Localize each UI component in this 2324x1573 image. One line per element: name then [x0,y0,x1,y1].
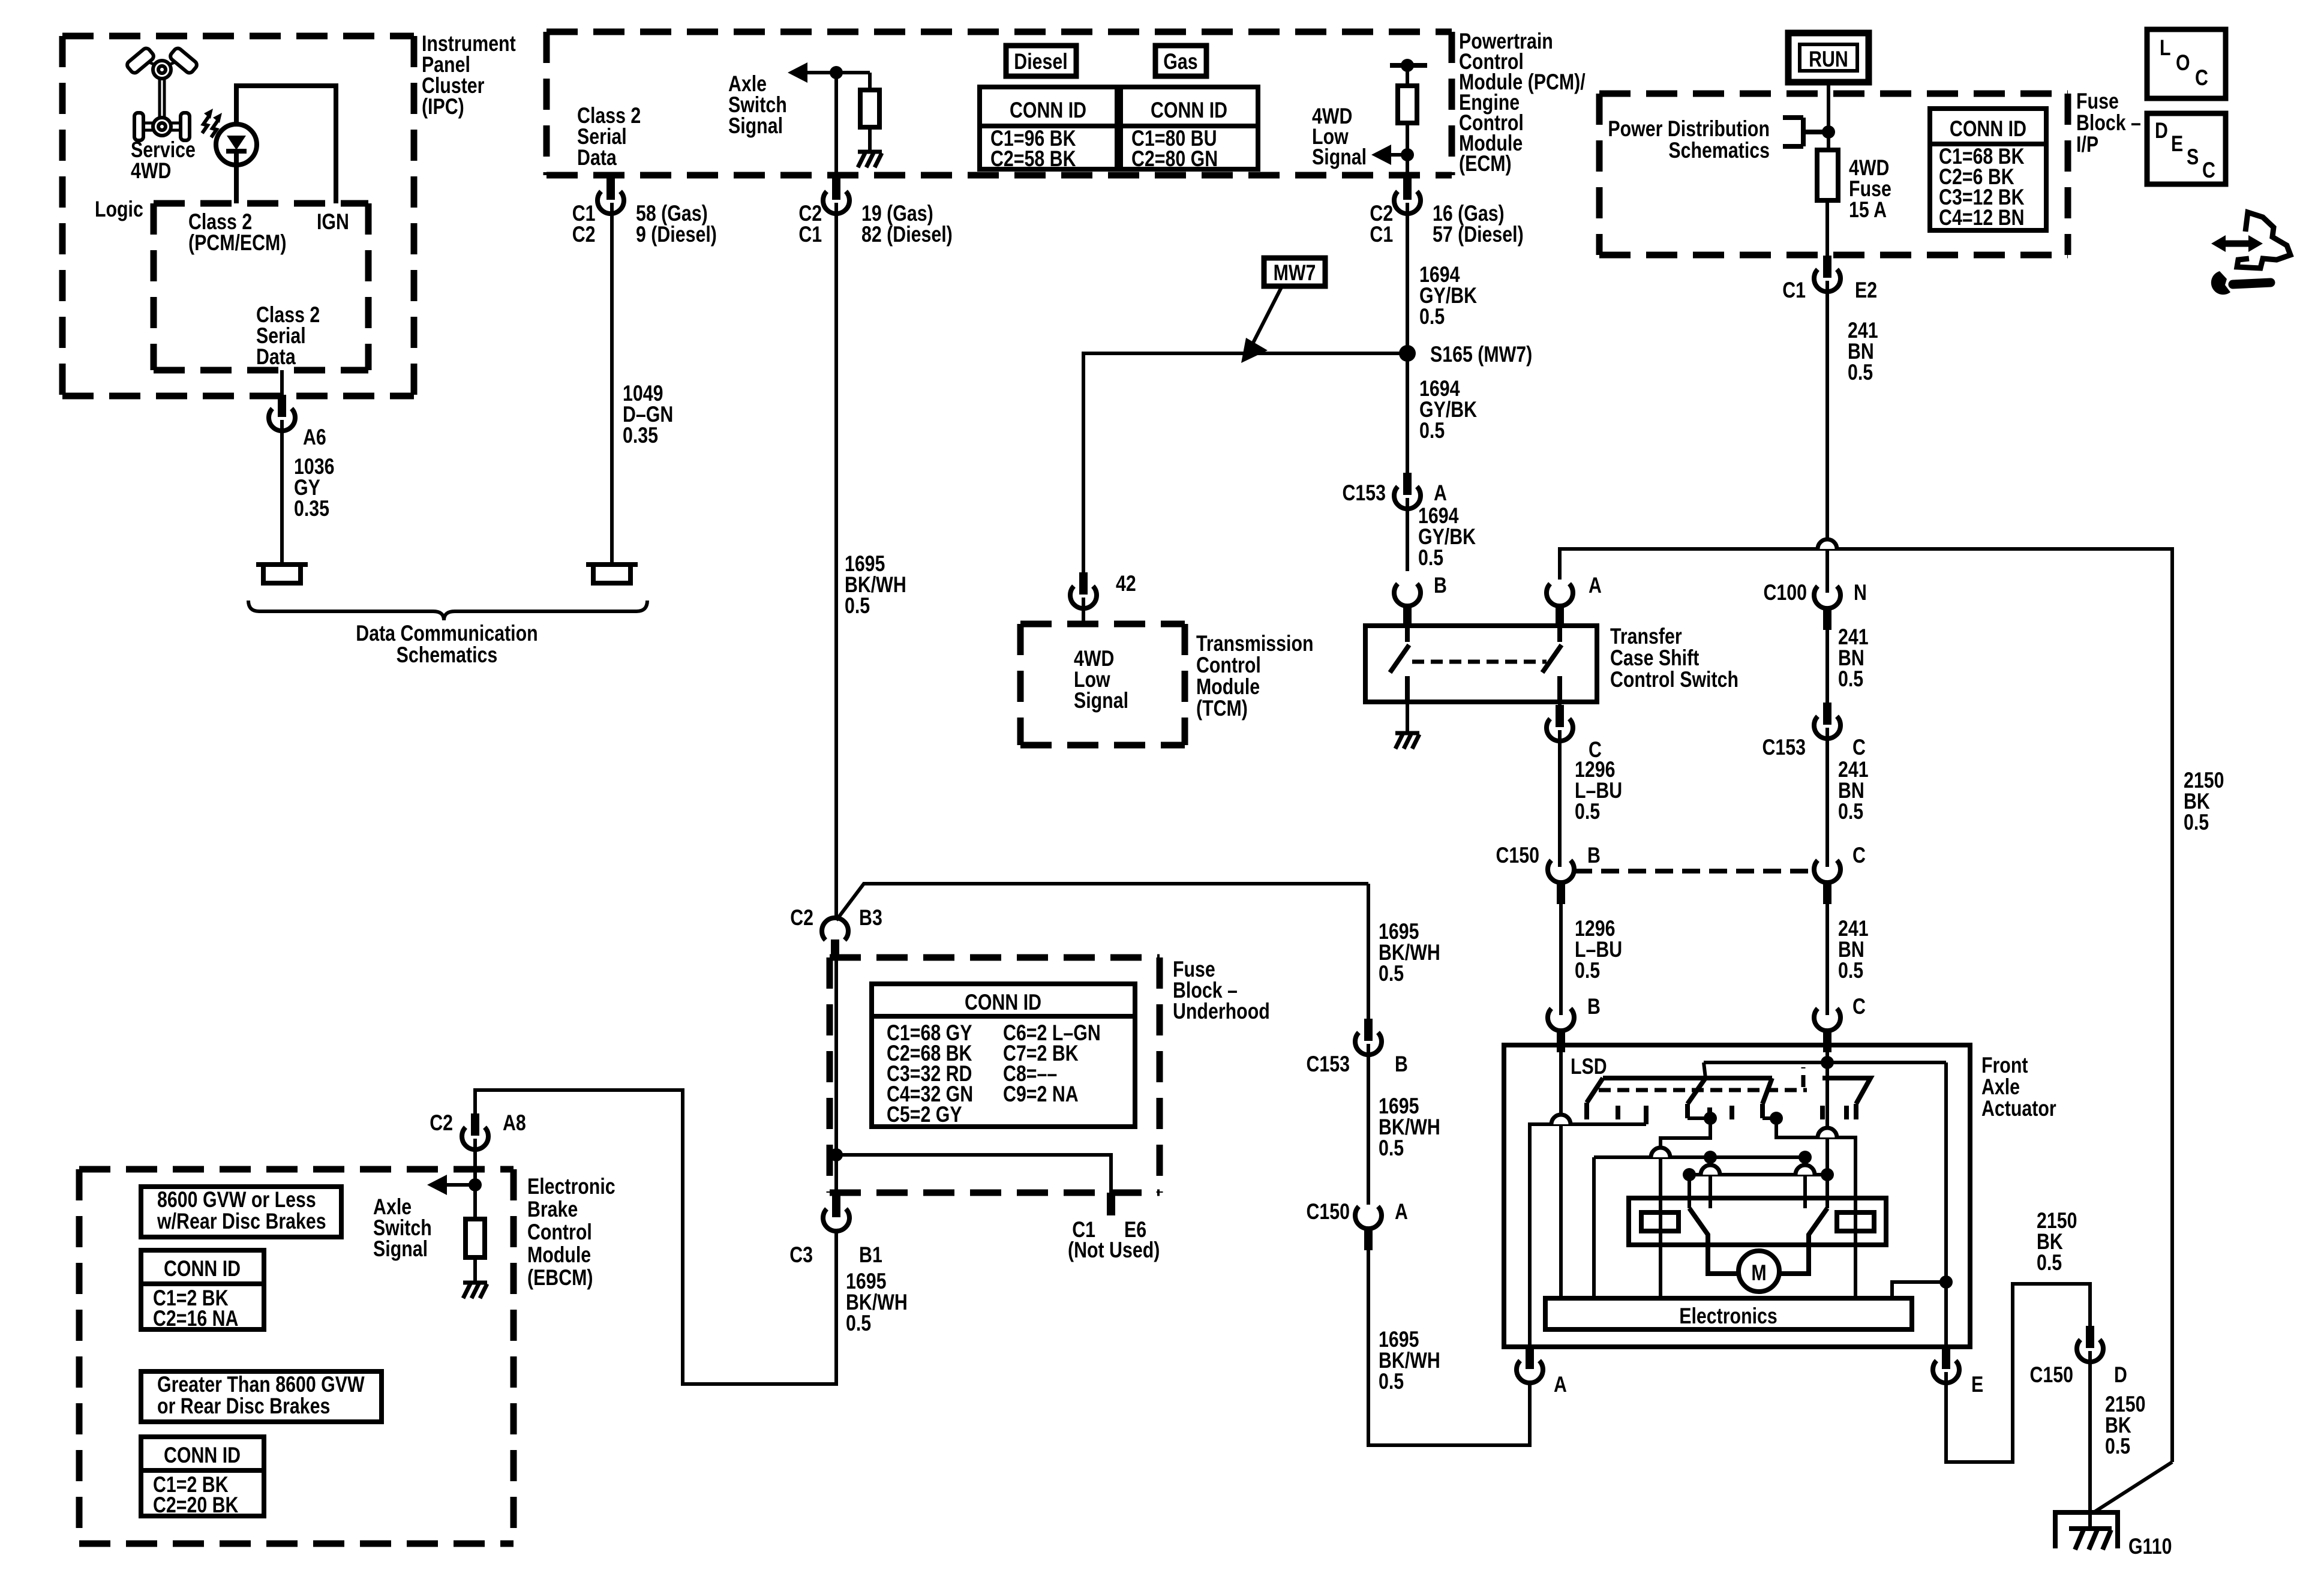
svg-text:0.5: 0.5 [2037,1250,2062,1275]
svg-text:0.5: 0.5 [1575,799,1600,824]
wire 241 BN C150 to actuator [1825,904,1829,1015]
svg-text:CONN ID: CONN ID [1151,98,1227,123]
logic box Class 2 (PCM/ECM) [154,203,368,370]
wire 1296 L-BU upper [1558,730,1562,867]
wire to E6 not used [836,1155,1111,1193]
node 4WD low signal top bar [1390,63,1427,68]
switch box Transfer Case Shift Control Switch [1365,626,1597,702]
hop bus2 over left contact [1701,1165,1720,1175]
icon service arrow wrench [2211,212,2290,295]
connector A6 [269,395,295,431]
svg-text:(Not Used): (Not Used) [1068,1238,1160,1263]
box DESC [2147,113,2226,184]
connector C150 C [1814,860,1840,904]
svg-text:CONN ID: CONN ID [164,1256,241,1281]
arrow 4WD low signal [1401,148,1414,161]
wire fuse out [1825,200,1829,277]
svg-text:Actuator: Actuator [1981,1096,2056,1121]
svg-text:0.5: 0.5 [1838,799,1863,824]
connector C2 B3 [822,918,848,960]
table CONN ID (Gas) [1121,87,1258,169]
svg-text:C: C [1852,994,1866,1019]
svg-text:82 (Diesel): 82 (Diesel) [861,222,953,247]
svg-text:C5=2 GY: C5=2 GY [887,1102,962,1127]
svg-text:G110: G110 [2128,1534,2172,1559]
svg-text:0.5: 0.5 [846,1311,871,1336]
module box Electronic Brake Control Module (EBCM) [79,1169,514,1544]
svg-text:0.5: 0.5 [845,593,870,619]
svg-text:Diesel: Diesel [1014,49,1067,74]
wire LSD right output to coil 2 [1762,1118,1855,1298]
LSD blade 1 [1688,1078,1706,1104]
svg-text:0.5: 0.5 [1379,961,1404,986]
wire 2150 BK to G110 [2088,1351,2092,1529]
resistor PCM 4WD low [1406,65,1409,86]
wire switch left to ground [1406,702,1409,733]
table CONN ID (EBCM 1) [141,1250,264,1329]
relay blade left [1689,1208,1739,1274]
svg-text:Data: Data [577,145,617,170]
svg-text:0.5: 0.5 [1379,1369,1404,1394]
svg-text:w/Rear Disc Brakes: w/Rear Disc Brakes [157,1209,326,1234]
svg-text:A: A [1395,1199,1408,1224]
module box Fuse Block - I/P [1599,94,2068,255]
wire LED to logic box [234,150,239,203]
svg-text:C2: C2 [430,1110,453,1136]
svg-text:B3: B3 [859,905,882,930]
svg-text:C9=2 NA: C9=2 NA [1003,1082,1079,1107]
wire LED to IGN [236,86,336,203]
module box Transmission Control Module (TCM) [1020,624,1185,745]
arrow MW7 callout [1251,287,1281,347]
connector E actuator [1933,1347,1959,1383]
arrow axle switch signal EBCM [446,1183,475,1187]
wire S165 to TCM [1083,353,1407,572]
node bus1 left contact [1704,1151,1717,1164]
module box Instrument Panel Cluster (IPC) [62,36,414,396]
wire E feed from top bus [1944,1062,1948,1347]
svg-text:IGN: IGN [317,209,349,235]
connector C153 A [1394,473,1421,509]
LSD fixed contact stubs [1587,1103,1762,1124]
bracket power distribution schematics [1783,118,1828,146]
note box 8600 GVW or Less [141,1187,341,1237]
svg-text:0.5: 0.5 [1419,304,1445,329]
brace Data Communication [248,601,647,620]
svg-text:15 A: 15 A [1849,197,1887,223]
connector C100 N [1814,586,1840,630]
splice S165 (MW7) [1399,345,1416,362]
node bus2 right [1821,1168,1834,1181]
wire 1036 GY [280,420,284,564]
module box Fuse Block - Underhood [830,957,1160,1193]
wire 1695 BK/WH to actuator A [1368,1250,1530,1445]
svg-text:or Rear Disc Brakes: or Rear Disc Brakes [157,1394,330,1419]
wire TCM in [1082,598,1085,624]
svg-text:C153: C153 [1342,481,1386,506]
svg-text:A6: A6 [303,425,326,450]
svg-text:E: E [2171,131,2183,157]
connector A transfer switch [1547,584,1573,628]
hop 241BN over 2150 net [1818,539,1837,549]
svg-text:MW7: MW7 [1274,260,1316,286]
tag box RUN [1788,33,1869,82]
svg-text:(TCM): (TCM) [1196,696,1248,721]
terminal right [586,565,638,583]
terminal left [256,565,308,583]
connector C150 D [2077,1326,2103,1362]
svg-text:C2=80 GN: C2=80 GN [1131,146,1218,172]
svg-text:Logic: Logic [95,197,143,222]
svg-text:I/P: I/P [2076,132,2098,157]
svg-text:CONN ID: CONN ID [1010,98,1086,123]
label box MW7 [1264,258,1325,286]
connector 42 TCM [1070,572,1097,608]
svg-text:C3: C3 [789,1242,813,1268]
wire IPC serial data out [280,370,284,395]
svg-text:B: B [1395,1052,1408,1077]
svg-text:B: B [1587,843,1601,868]
svg-text:C2=58 BK: C2=58 BK [990,146,1076,172]
svg-text:C1: C1 [798,222,822,247]
wire 241 BN C100 to C153 [1825,630,1829,703]
node LSD left output [1704,1112,1717,1125]
svg-text:0.5: 0.5 [1575,958,1600,983]
box LOC [2147,29,2226,98]
svg-text:57 (Diesel): 57 (Diesel) [1433,222,1524,247]
module box Powertrain Control Module (PCM)/ECM [547,32,1452,175]
svg-text:0.5: 0.5 [1838,667,1863,692]
svg-text:0.5: 0.5 [1418,545,1443,571]
connector C actuator in [1814,1008,1840,1052]
wire 241 BN to C100 [1825,281,1829,593]
svg-text:C150: C150 [1496,843,1539,868]
node LSD right output [1770,1112,1783,1125]
resistor PCM axle switch pull-up [868,73,872,90]
svg-text:C153: C153 [1762,735,1806,760]
hop bus2 over right contact [1795,1165,1815,1175]
relay blade right [1779,1208,1827,1274]
svg-text:B: B [1587,994,1601,1019]
svg-text:E: E [1971,1372,1983,1397]
connector C3 B1 [823,1195,849,1231]
connector C153 C [1814,703,1840,739]
note box Greater Than 8600 GVW [141,1371,382,1422]
hop coil2 wire over C wire [1818,1128,1837,1137]
connector C150 B [1548,860,1574,904]
svg-text:Signal: Signal [1074,688,1128,713]
wire switch right down [1558,702,1562,727]
svg-text:0.35: 0.35 [294,496,329,521]
svg-text:D: D [2155,118,2168,143]
fuse 4WD 15A [1817,150,1838,200]
svg-text:(IPC): (IPC) [422,94,464,119]
svg-text:RUN: RUN [1809,47,1848,72]
node E junction [1939,1275,1953,1289]
svg-text:N: N [1854,580,1867,605]
node bus2 left [1683,1168,1696,1181]
svg-text:Data: Data [256,344,296,370]
table CONN ID (I/P) [1930,109,2046,230]
connector C1 E2 [1814,256,1840,292]
svg-text:Electronics: Electronics [1679,1304,1777,1329]
wire inside fuse block [834,960,838,1193]
icon 4WD drivetrain [125,47,198,140]
LSD switch bar [1587,1078,1772,1104]
svg-text:M: M [1751,1260,1766,1286]
svg-text:S165 (MW7): S165 (MW7) [1430,342,1532,367]
wire actuator A feed [1530,1124,1646,1347]
svg-text:42: 42 [1116,571,1136,596]
bus1 electronics to contacts [1594,1157,1805,1298]
svg-text:Brake: Brake [527,1197,578,1222]
table CONN ID (Underhood) [872,984,1135,1127]
svg-text:A: A [1589,573,1602,598]
svg-text:Schematics: Schematics [1668,138,1770,163]
svg-text:0.5: 0.5 [1419,418,1445,443]
svg-text:C2=20 BK: C2=20 BK [153,1493,239,1518]
svg-text:C1: C1 [1370,222,1393,247]
node junction axle switch [830,66,843,79]
wire 1695 BK/WH C153 to C150 [1367,1044,1370,1205]
svg-text:0.5: 0.5 [2105,1434,2130,1459]
connector C1/C2 serial data [597,178,624,214]
connector C153 B [1355,1019,1382,1055]
svg-text:4WD: 4WD [131,158,171,184]
wire actuator B internal [1559,1045,1563,1298]
wire 1694 GY/BK below C153 [1406,498,1409,571]
svg-text:C100: C100 [1764,580,1807,605]
hop bus1 over coil1 wire [1651,1148,1670,1157]
tag box Diesel [1006,46,1076,76]
svg-text:CONN ID: CONN ID [164,1443,241,1468]
wire axle switch pin out [834,73,838,199]
svg-text:0.5: 0.5 [1838,958,1863,983]
svg-text:C2=16 NA: C2=16 NA [153,1306,238,1331]
svg-text:C2: C2 [790,905,813,930]
wire E to C150 D [1946,1284,2090,1462]
svg-text:Control: Control [527,1220,592,1245]
svg-text:Electronic: Electronic [527,1174,615,1199]
svg-text:B1: B1 [859,1242,882,1268]
svg-text:C150: C150 [1306,1199,1350,1224]
svg-text:0.35: 0.35 [623,423,658,448]
node power distribution tap [1822,125,1835,139]
LSD right switch bar [1822,1078,1870,1119]
node C top junction [1821,1056,1834,1069]
electronics module [1545,1298,1912,1329]
svg-text:A8: A8 [503,1110,526,1136]
coil 2 [1837,1212,1874,1231]
svg-text:C153: C153 [1306,1052,1350,1077]
connector C2 A8 [462,1113,488,1149]
LSD mechanical dashed link [1599,1088,1807,1092]
ground EBCM internal [463,1283,487,1298]
wire PCM pin out 4WD low [1406,155,1409,176]
ground transfer switch [1395,733,1419,749]
wire serial data pin out [609,175,612,199]
connector C transfer switch out [1547,705,1573,741]
module box Front Axle Actuator [1504,1045,1970,1347]
svg-text:A: A [1554,1372,1567,1397]
wire LSD left output to coil 1 [1661,1118,1710,1298]
wire left blade pivot [1688,1175,1691,1208]
wire 1695 BK/WH down to B3 [836,203,1368,920]
wire 2150 ground branch diagonal [2094,1462,2172,1512]
svg-text:C: C [1852,735,1866,760]
svg-text:0.5: 0.5 [1379,1136,1404,1161]
mechanical link dashed [1412,660,1547,664]
indicator lamp arrows [202,116,218,137]
svg-text:Signal: Signal [728,113,783,139]
relay frame [1629,1198,1886,1245]
table CONN ID (Diesel) [980,87,1117,169]
svg-text:O: O [2176,50,2190,76]
wire LSD top bus [1704,1062,1946,1078]
wire A8 into EBCM [473,1139,477,1219]
hop B wire over A feed [1551,1115,1571,1124]
svg-text:C: C [1852,843,1866,868]
svg-text:(EBCM): (EBCM) [527,1265,593,1290]
svg-text:S: S [2187,145,2199,170]
motor M [1739,1251,1779,1292]
ground PCM internal [858,152,882,167]
bus2 blade pivots [1689,1173,1827,1176]
svg-text:Schematics: Schematics [397,643,498,668]
svg-text:Gas: Gas [1163,49,1197,74]
svg-text:CONN ID: CONN ID [965,990,1041,1015]
connector A actuator [1517,1347,1543,1383]
connector C2/C1 4WD low [1394,178,1421,214]
svg-text:(PCM/ECM): (PCM/ECM) [188,230,286,256]
wire B1 to A8 EBCM [475,1090,836,1384]
svg-text:9 (Diesel): 9 (Diesel) [636,222,717,247]
svg-text:C2: C2 [572,222,596,247]
svg-text:0.5: 0.5 [2184,810,2209,835]
wire transfer switch A to ground net 2150 [1560,549,2172,1462]
dashed wire C150B to C150C [1574,869,1814,873]
node bus1 right contact [1798,1151,1812,1164]
wire E junction to electronics [1892,1282,1946,1298]
svg-text:Module: Module [527,1242,591,1268]
node E6 tap [830,1148,843,1161]
svg-text:0.5: 0.5 [1848,360,1873,385]
connector B actuator in [1548,1008,1574,1052]
svg-text:A: A [1434,481,1447,506]
pin E6 not used [1107,1193,1115,1215]
arrow axle switch signal [807,71,870,74]
svg-text:C1: C1 [1782,278,1806,303]
LED indicator 4WD [216,124,257,165]
svg-text:D: D [2114,1362,2127,1388]
wire 1694 GY/BK upper [1406,203,1409,494]
contact hanging wires [1710,1157,1805,1208]
wire 241 BN C153 to C150 [1825,728,1829,867]
coil 1 [1641,1212,1679,1231]
connector C150 A [1355,1206,1382,1250]
resistor EBCM [466,1219,485,1257]
wire RUN to fuse [1827,82,1830,150]
connector C2/C1 axle switch [823,178,849,214]
svg-text:Signal: Signal [1312,145,1367,170]
tag box Gas [1155,46,1206,76]
svg-text:C4=12 BN: C4=12 BN [1939,205,2024,230]
svg-text:L: L [2160,35,2171,61]
node EBCM axle switch [469,1178,482,1191]
svg-text:CONN ID: CONN ID [1950,116,2026,142]
svg-text:Underhood: Underhood [1173,999,1270,1024]
svg-text:C: C [2195,65,2208,91]
svg-text:(ECM): (ECM) [1459,151,1512,176]
wire 1049 D-GN [610,203,614,565]
svg-text:C150: C150 [2029,1362,2073,1388]
wire 1695 BK/WH to C153 B [1367,884,1370,1019]
ground G110 [2053,1512,2120,1548]
wire actuator C internal [1825,1045,1829,1208]
table CONN ID (EBCM 2) [141,1437,264,1516]
svg-text:Control Switch: Control Switch [1610,667,1739,692]
connector B transfer switch [1394,584,1421,628]
svg-text:Signal: Signal [373,1236,428,1262]
svg-text:LSD: LSD [1571,1054,1607,1079]
svg-text:C: C [2202,158,2215,183]
svg-text:B: B [1434,573,1447,598]
switch contacts transfer case [1390,626,1409,702]
svg-text:E2: E2 [1855,278,1877,303]
wire 1296 L-BU lower [1559,904,1563,1015]
